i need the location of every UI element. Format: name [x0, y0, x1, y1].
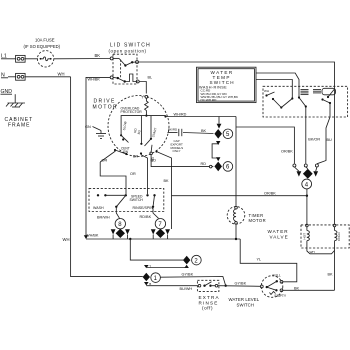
wire BL lid switch to motor T [139, 76, 152, 94]
svg-text:BK: BK [328, 273, 334, 277]
water level switch [260, 273, 287, 298]
fuse F1 [37, 51, 53, 67]
wire extra rinse to water level switch [218, 281, 261, 286]
label WATER LEVEL SWITCH [229, 297, 260, 307]
svg-text:EXTRA: EXTRA [199, 295, 220, 300]
timer motor TM [227, 206, 266, 224]
speed switch box [89, 188, 164, 211]
svg-text:OR: OR [130, 172, 136, 176]
svg-text:RINSE/SPIN: RINSE/SPIN [133, 206, 154, 210]
wire connector 2 to connector 1 [147, 267, 187, 269]
wire valve common return [307, 248, 335, 290]
svg-text:VALVE: VALVE [270, 234, 289, 239]
svg-text:GY/BK: GY/BK [182, 272, 194, 276]
svg-text:RD: RD [151, 159, 157, 163]
svg-text:BU: BU [137, 130, 142, 135]
svg-text:SWITCH: SWITCH [130, 198, 144, 202]
wire N to plug [8, 76, 16, 78]
water valve cold coil [333, 86, 341, 248]
lid switch S1 labels [109, 43, 151, 54]
svg-text:RD/BK: RD/BK [140, 215, 152, 219]
node L1 [1, 54, 8, 60]
wire timer to bus [235, 224, 237, 239]
water valve hot coil [303, 224, 310, 248]
svg-text:YL: YL [257, 258, 262, 262]
speed switch contacts [97, 194, 156, 208]
extra rinse switch [197, 280, 219, 291]
wire temp switch to contacts upper [256, 73, 299, 97]
temp switch contacts group 3 [313, 88, 336, 104]
svg-text:(open position): (open position) [109, 49, 147, 54]
svg-text:OR/BK: OR/BK [264, 192, 276, 196]
svg-text:BR/WH: BR/WH [97, 216, 110, 220]
drive motor M1 [108, 95, 169, 156]
connector plug L1 [16, 55, 26, 62]
connector 6 [214, 162, 232, 172]
wire connector 4 to water valve hot [306, 189, 308, 224]
svg-text:(IF SO EQUIPPED): (IF SO EQUIPPED) [24, 44, 61, 49]
svg-text:WH/BK: WH/BK [86, 234, 99, 238]
svg-text:BK: BK [294, 286, 300, 290]
wire bus jog to YL [240, 239, 297, 280]
wire GY/BK connector1 to junction [160, 272, 225, 285]
svg-text:RINSE: RINSE [199, 300, 219, 305]
wire bus to connector 2 [130, 239, 183, 260]
svg-text:RD: RD [201, 162, 207, 166]
svg-text:WATER: WATER [268, 229, 289, 234]
svg-text:FULL: FULL [273, 273, 281, 277]
wire BK lid switch to right side [139, 62, 335, 86]
svg-text:WATER LEVEL: WATER LEVEL [229, 297, 260, 302]
svg-text:HC:WH RD: HC:WH RD [201, 98, 218, 102]
wire OR/BK timer line to connector 4 [236, 127, 294, 164]
temp switch contacts group 2 [280, 90, 308, 109]
junction bus drop connector 2 [129, 238, 131, 240]
wire temp switch to contacts lower [256, 80, 292, 98]
wire OR motor to speed switch [100, 151, 136, 194]
connector plug N [16, 73, 26, 80]
water temp switch contact box [263, 86, 348, 117]
motor ground GN [85, 125, 106, 139]
wire BU contacts to connector 4 [317, 104, 332, 164]
svg-text:T: T [149, 265, 151, 269]
svg-text:HOT: HOT [303, 233, 307, 240]
connector 5 stub [217, 117, 222, 129]
label CABINET FRAME [5, 117, 34, 129]
wire RD/BK to connector 7 [140, 208, 159, 219]
svg-text:BK: BK [164, 179, 170, 183]
svg-text:WH: WH [310, 250, 315, 254]
svg-text:BK/RD: BK/RD [168, 128, 178, 132]
wire timer vertical [235, 117, 237, 207]
svg-text:SWITCH: SWITCH [237, 302, 255, 307]
connector 8 [111, 219, 130, 240]
wire neutral bus [86, 234, 240, 241]
svg-text:SWITCH: SWITCH [210, 80, 235, 85]
connector 7 [151, 219, 170, 240]
wire BK water level to right side [283, 286, 335, 290]
temp switch contacts group 1 [264, 89, 281, 108]
svg-text:MOTOR: MOTOR [93, 104, 119, 110]
wire fuse to lid switch, BK [54, 53, 111, 59]
wire link 5 to 6 [212, 141, 220, 161]
svg-text:EMPTY: EMPTY [275, 294, 287, 298]
lid switch S1 [110, 54, 139, 84]
junction OR/BK rinse to valve [306, 195, 308, 197]
svg-text:OR/BK: OR/BK [281, 150, 293, 154]
svg-text:WH/RD: WH/RD [174, 113, 187, 117]
wire BK motor right side down [158, 152, 172, 229]
svg-text:BL: BL [148, 76, 153, 80]
wire BU/WH connector1 to extra rinse [146, 286, 197, 291]
capacitor C1 [168, 128, 214, 137]
label EXTRA RINSE (off) [199, 295, 220, 311]
wire BR motor to speed switch [133, 155, 156, 195]
wire OR/BK speed switch to valve [172, 192, 307, 196]
svg-text:BK/OR: BK/OR [308, 138, 320, 142]
svg-text:BU/WH: BU/WH [180, 287, 193, 291]
svg-text:OR: OR [102, 159, 108, 163]
water valve box [268, 225, 350, 248]
wire YL to full [283, 280, 297, 282]
motor internal wires [145, 115, 147, 117]
svg-text:BK: BK [201, 129, 207, 133]
connector 2 [183, 255, 201, 268]
water temp switch legend box [197, 67, 257, 102]
connector 5 [214, 129, 232, 139]
svg-text:GY/BK: GY/BK [235, 281, 247, 285]
label CAP EXPORT MODELS ONLY [171, 139, 184, 153]
wire RD motor to connector 6 [150, 145, 214, 168]
wire BK/OR contacts to connector 4 [306, 108, 321, 164]
svg-text:WASH: WASH [93, 206, 104, 210]
svg-text:(off): (off) [202, 306, 213, 311]
svg-text:FRAME: FRAME [8, 123, 31, 129]
svg-text:MOTOR: MOTOR [249, 218, 267, 223]
svg-text:BK: BK [95, 53, 101, 58]
wire L1 to plug [8, 58, 16, 60]
drive motor label [93, 99, 119, 111]
svg-text:WH: WH [63, 237, 70, 242]
svg-text:WH: WH [264, 89, 269, 93]
wire plug to fuse [25, 58, 38, 60]
svg-text:BR: BR [133, 155, 139, 159]
connector 4 [293, 164, 319, 189]
svg-text:PROTECTOR: PROTECTOR [121, 110, 143, 114]
ground GND [1, 89, 26, 107]
wire BR/WH to connector 8 [97, 208, 120, 220]
node N [1, 73, 8, 79]
svg-text:WH: WH [58, 71, 65, 76]
svg-text:COLD: COLD [337, 232, 341, 241]
junction GY/BK [225, 285, 227, 287]
wire WH/RD motor to timer drop [164, 113, 236, 118]
connector 1 [143, 265, 161, 287]
svg-text:BU: BU [327, 138, 333, 142]
svg-text:GN: GN [85, 125, 91, 129]
wire WH/BK lid switch to bus [84, 77, 110, 239]
svg-text:10A FUSE: 10A FUSE [35, 38, 55, 43]
svg-text:WH/BK: WH/BK [88, 78, 101, 82]
wire left vertical WH [63, 77, 143, 277]
wire N WH to left drop [25, 71, 71, 76]
fuse F1 label [24, 38, 61, 49]
svg-text:ONLY: ONLY [173, 149, 181, 153]
